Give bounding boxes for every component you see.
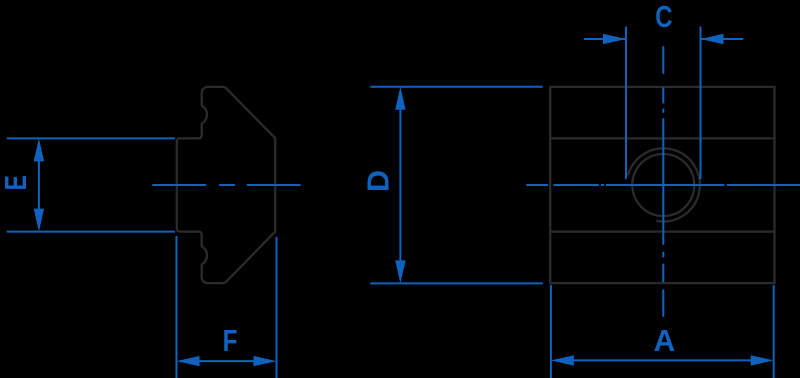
svg-text:F: F	[223, 323, 238, 357]
T-nut side profile outline	[177, 87, 275, 283]
dim F line	[194, 360, 259, 362]
thread hole inner circle	[632, 154, 694, 216]
arrow C left inward	[603, 34, 626, 44]
dim D line	[399, 104, 401, 266]
arrow D up	[395, 87, 405, 110]
arrow A left	[551, 355, 574, 365]
dim F extension lines	[176, 236, 178, 378]
arrow D down	[395, 260, 405, 283]
arrow F right	[254, 356, 277, 366]
dim A extension lines	[550, 285, 552, 378]
thread major diameter arc	[628, 148, 700, 221]
arrow E down	[34, 209, 44, 232]
front view rectangle	[550, 87, 774, 283]
front view top step edge	[550, 137, 774, 139]
dim E extension lines	[7, 137, 175, 139]
svg-text:C: C	[655, 0, 672, 34]
centerline side view	[152, 184, 300, 186]
arrow F left	[177, 356, 200, 366]
centerline front view horizontal	[526, 184, 800, 186]
arrow A right	[751, 355, 774, 365]
svg-text:D: D	[362, 170, 396, 192]
svg-text:E: E	[0, 175, 33, 190]
arrow C right inward	[701, 34, 724, 44]
dim D extension lines	[370, 86, 543, 88]
dim E line	[38, 155, 40, 215]
centerline front view vertical	[662, 46, 664, 317]
dim C extension lines	[625, 27, 627, 180]
front view bottom step edge	[550, 230, 774, 232]
arrow E up	[34, 138, 44, 161]
svg-text:A: A	[654, 325, 676, 358]
dim C line tails	[584, 38, 626, 40]
dim A line	[568, 359, 757, 361]
